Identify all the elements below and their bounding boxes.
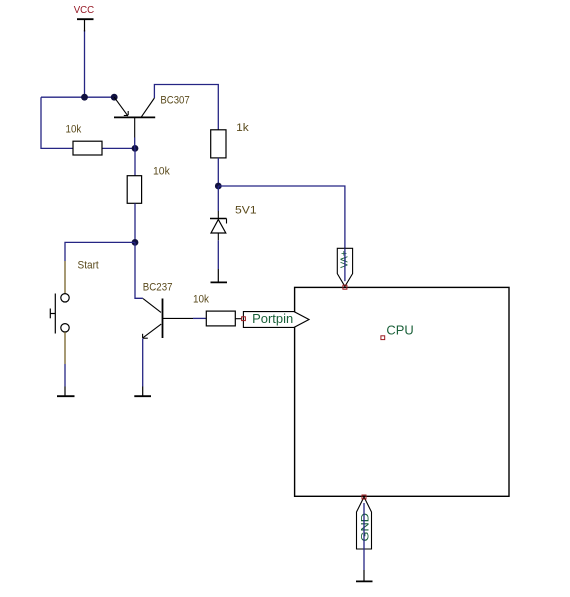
net flag GND [357,497,372,549]
wire zener node to VA+ [218,186,345,248]
wire R1 right to base node [102,147,135,149]
wire base pin to node [134,138,136,149]
wire top horizontal rail [41,96,114,98]
wire R4 to portpin flag [235,318,242,320]
junction dot emitter node [111,94,118,101]
transistor Q1 BC307 PNP [114,97,155,137]
svg-text:10k: 10k [153,165,170,177]
VCC supply symbol [77,19,94,31]
svg-text:GND: GND [360,513,372,542]
wire start node to Q2 collector [135,242,143,298]
pin marker portpin [242,317,246,321]
pin marker GND [362,495,366,499]
wire VCC drop [84,30,86,97]
wire collector to 1k [154,85,218,131]
resistor R2 1k vertical [211,130,226,158]
wire GND flag to ground [363,549,365,570]
wire Q2 base to R4 [193,317,206,319]
svg-text:Portpin: Portpin [252,311,293,326]
wire base node to R3 [134,148,136,176]
junction dot start node [132,239,139,246]
svg-text:BC237: BC237 [143,282,173,294]
wire start node to switch [65,242,135,261]
svg-text:1k: 1k [236,122,249,134]
net flag VA+ [337,248,352,286]
ground symbol under GND flag [356,570,373,581]
junction dot base node [132,145,139,152]
wire 1k to zener node [217,158,219,186]
wire left branch down to R1 [41,97,73,148]
svg-text:CPU: CPU [386,323,413,338]
svg-text:BC307: BC307 [160,95,189,107]
ground symbol under switch [57,387,75,397]
resistor R3 10k vertical [127,176,141,204]
resistor R1 10k horizontal [73,141,102,155]
wire R3 to start node [134,203,136,242]
svg-text:10k: 10k [66,124,82,136]
svg-text:VCC: VCC [74,5,95,16]
wire Q2 emitter to ground [142,339,144,387]
origin marker CPU [381,336,385,340]
pin marker VA+ [343,285,347,289]
transistor Q2 BC237 NPN [143,299,193,339]
wire switch to ground [64,364,66,387]
svg-text:10k: 10k [193,293,209,305]
wire zener to ground [217,240,219,269]
switch S1 pushbutton Start [50,261,69,364]
svg-text:5V1: 5V1 [235,205,257,217]
net flag Portpin [243,311,309,328]
wire zener node down [217,186,219,211]
junction dot VCC node [81,94,88,101]
zener diode D1 5V1 [210,211,227,240]
ground symbol under Q2 [134,387,151,397]
svg-text:Start: Start [78,260,99,272]
CPU block U1 [295,287,509,496]
junction dot zener node [215,183,222,190]
resistor R4 10k horizontal [206,311,235,326]
ground symbol under zener [211,269,228,282]
